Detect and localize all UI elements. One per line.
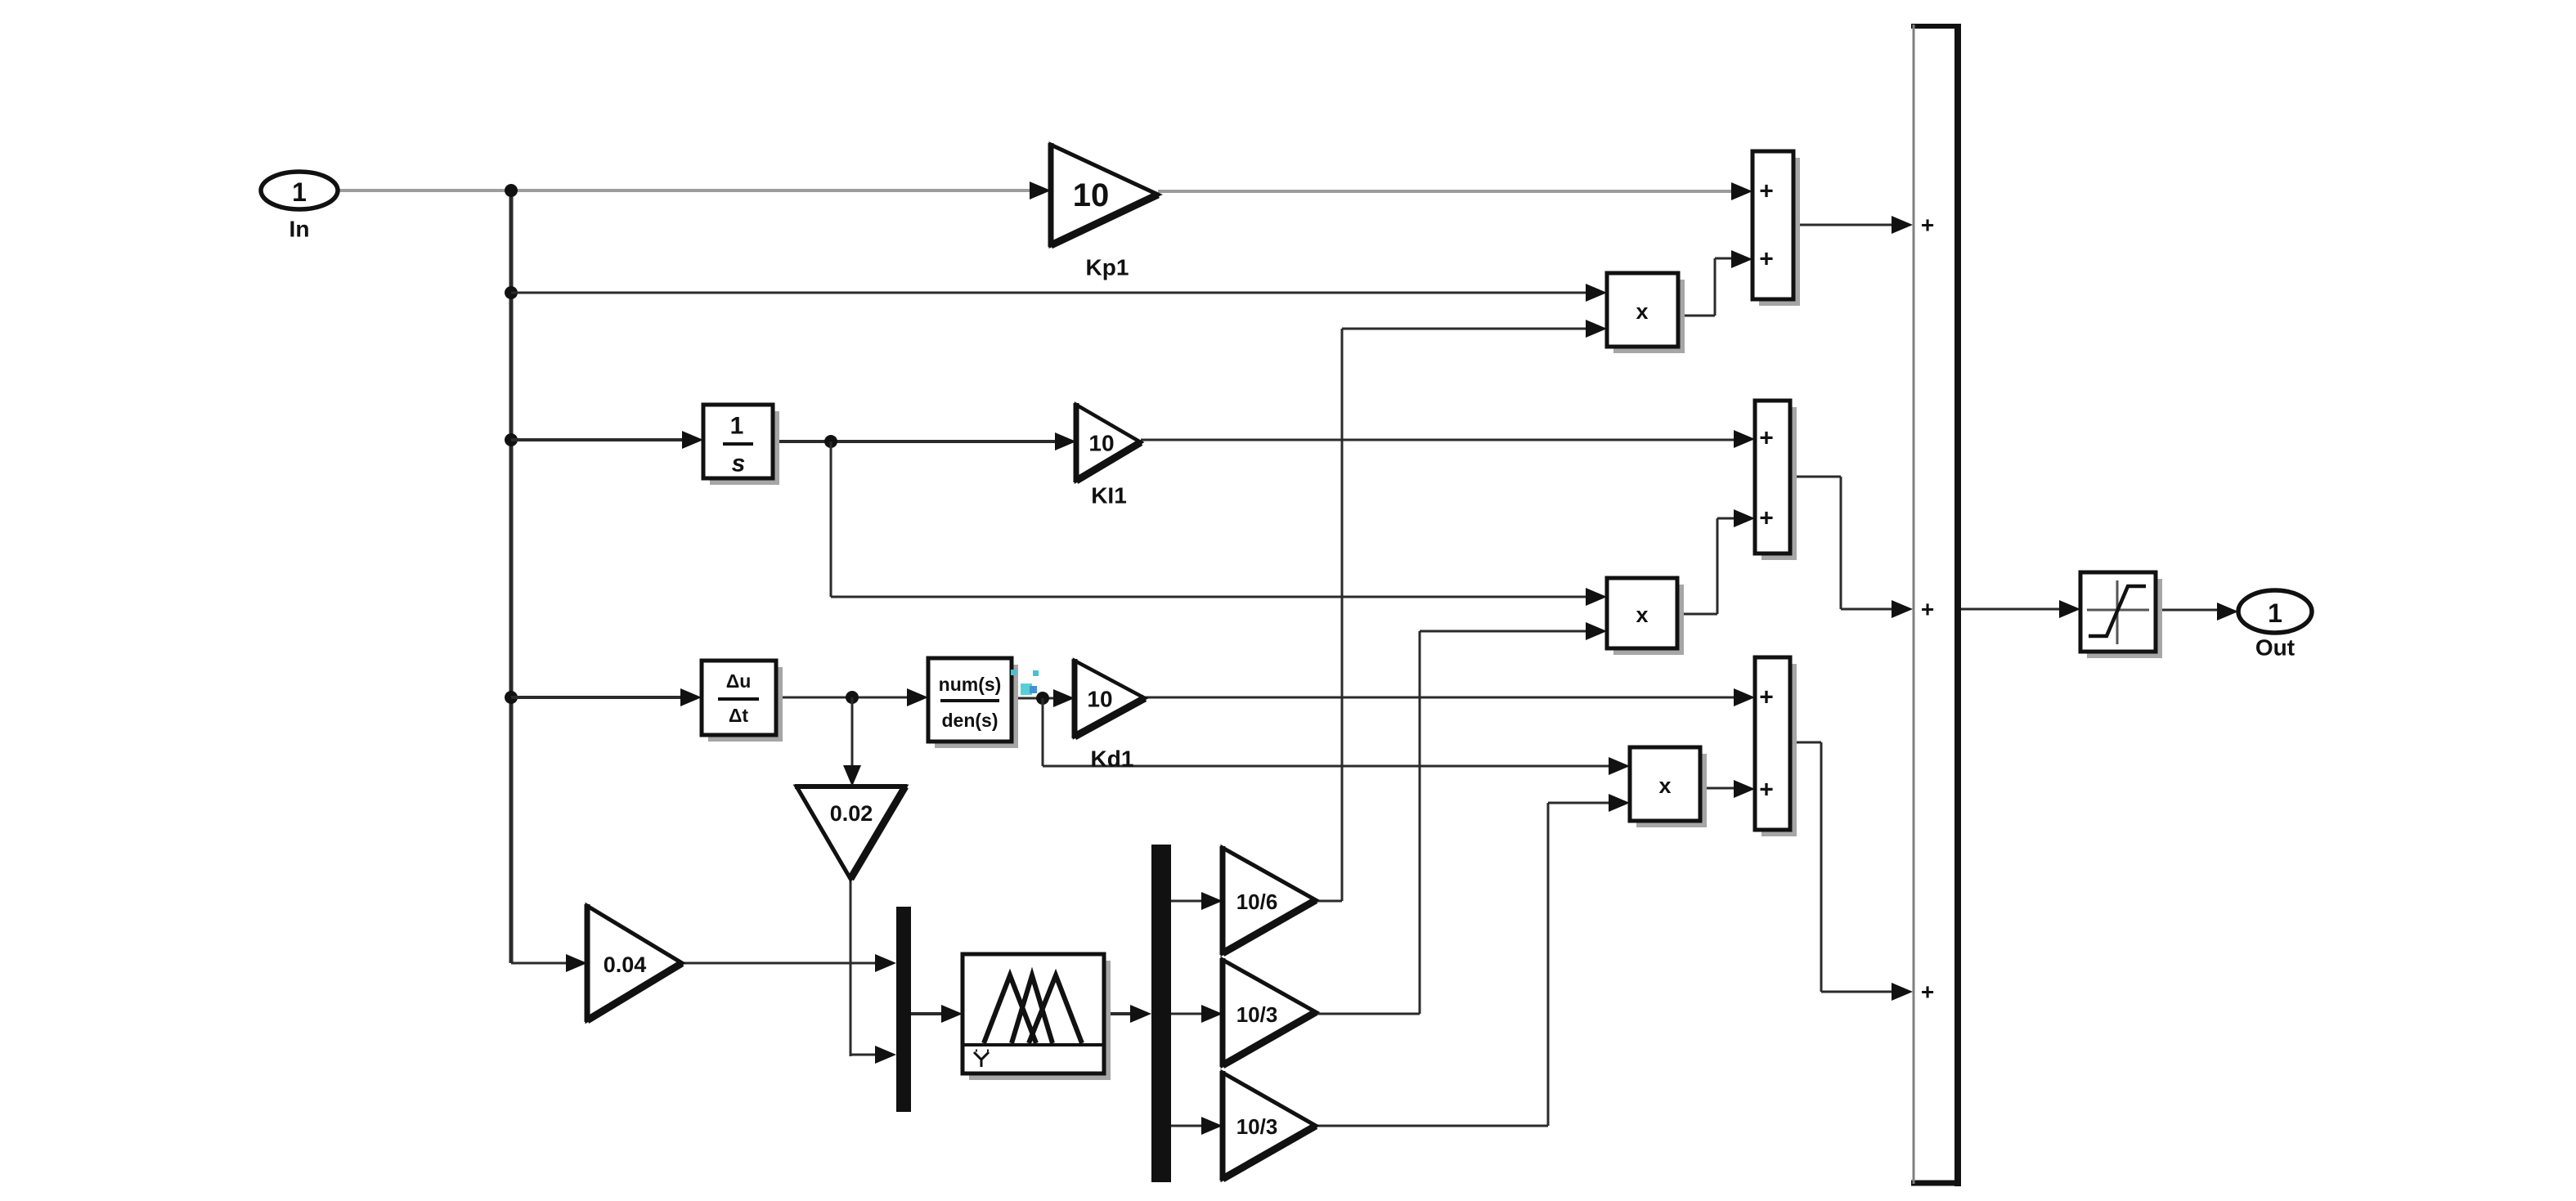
svg-text:s: s <box>732 450 746 477</box>
svg-text:+: + <box>1921 213 1934 238</box>
svg-text:0.02: 0.02 <box>830 801 873 826</box>
svg-text:10/3: 10/3 <box>1236 1114 1278 1139</box>
svg-text:10/3: 10/3 <box>1236 1002 1278 1027</box>
svg-text:+: + <box>1759 425 1774 452</box>
svg-text:0.04: 0.04 <box>604 952 647 977</box>
svg-text:Δt: Δt <box>729 705 749 726</box>
svg-text:KI1: KI1 <box>1091 483 1127 509</box>
svg-text:den(s): den(s) <box>942 710 999 731</box>
svg-text:1: 1 <box>2268 598 2282 628</box>
svg-text:Kd1: Kd1 <box>1091 746 1134 772</box>
svg-text:+: + <box>1759 684 1774 711</box>
svg-text:Kp1: Kp1 <box>1086 255 1129 280</box>
svg-text:x: x <box>1658 773 1671 798</box>
svg-text:10: 10 <box>1087 687 1112 712</box>
svg-text:In: In <box>289 217 310 242</box>
svg-text:1: 1 <box>292 177 307 207</box>
svg-text:+: + <box>1759 246 1774 273</box>
svg-text:Out: Out <box>2255 635 2295 661</box>
svg-text:1: 1 <box>730 413 744 440</box>
svg-text:+: + <box>1759 505 1774 532</box>
svg-text:10: 10 <box>1073 177 1110 213</box>
svg-text:10: 10 <box>1088 431 1114 456</box>
svg-text:+: + <box>1921 979 1934 1005</box>
svg-text:Δu: Δu <box>726 670 752 692</box>
svg-text:x: x <box>1636 299 1648 324</box>
svg-text:num(s): num(s) <box>939 674 1002 695</box>
svg-text:+: + <box>1759 178 1774 205</box>
svg-text:10/6: 10/6 <box>1236 890 1278 914</box>
svg-text:+: + <box>1759 777 1774 804</box>
svg-text:+: + <box>1921 597 1934 622</box>
svg-text:x: x <box>1636 603 1648 627</box>
